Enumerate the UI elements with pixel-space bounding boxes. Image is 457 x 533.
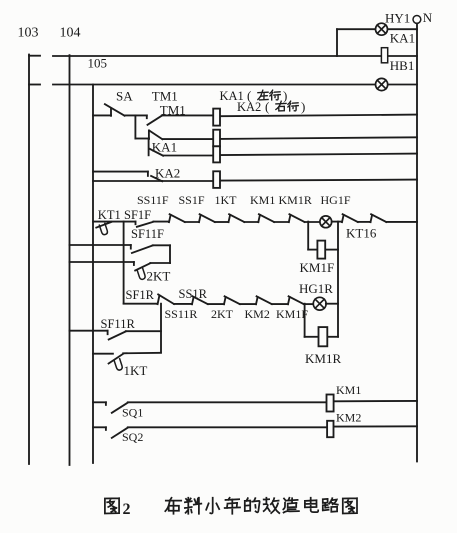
- svg-text:(: (: [265, 99, 269, 114]
- svg-text:SQ1: SQ1: [122, 405, 143, 419]
- svg-text:SS11F: SS11F: [137, 193, 169, 207]
- svg-text:): ): [283, 88, 287, 103]
- svg-text:TM1: TM1: [160, 103, 186, 118]
- svg-text:2: 2: [123, 501, 131, 518]
- svg-text:KM1: KM1: [336, 383, 361, 397]
- svg-text:HY1: HY1: [385, 10, 410, 25]
- svg-text:KA1: KA1: [152, 140, 177, 155]
- svg-text:HG1F: HG1F: [321, 193, 351, 207]
- svg-text:KM1R: KM1R: [279, 193, 312, 207]
- svg-text:): ): [301, 99, 305, 114]
- svg-text:N: N: [423, 10, 433, 25]
- svg-text:SF1F: SF1F: [124, 208, 151, 222]
- svg-text:SA: SA: [116, 89, 133, 104]
- svg-text:KM1F: KM1F: [300, 260, 335, 275]
- svg-text:2KT: 2KT: [211, 307, 234, 321]
- svg-text:SS11R: SS11R: [165, 307, 198, 321]
- svg-text:103: 103: [18, 26, 39, 41]
- svg-text:KM1: KM1: [250, 193, 275, 207]
- svg-text:KM1F: KM1F: [276, 307, 308, 321]
- svg-text:SF1R: SF1R: [126, 288, 155, 302]
- svg-text:2KT: 2KT: [147, 268, 171, 283]
- svg-text:104: 104: [60, 26, 81, 41]
- svg-text:KM2: KM2: [336, 411, 361, 425]
- svg-text:KM1R: KM1R: [305, 351, 341, 366]
- svg-text:SF11R: SF11R: [101, 317, 136, 331]
- svg-text:KA2: KA2: [237, 100, 261, 114]
- svg-text:SS1F: SS1F: [179, 193, 205, 207]
- svg-text:KM2: KM2: [245, 307, 270, 321]
- svg-text:SF11F: SF11F: [131, 227, 164, 241]
- svg-text:1KT: 1KT: [215, 193, 238, 207]
- svg-text:TM1: TM1: [152, 89, 178, 104]
- svg-text:SQ2: SQ2: [122, 430, 143, 444]
- svg-text:KT16: KT16: [346, 225, 377, 240]
- svg-text:HG1R: HG1R: [299, 281, 333, 296]
- svg-text:KA2: KA2: [155, 165, 180, 180]
- svg-text:SS1R: SS1R: [179, 287, 208, 301]
- svg-text:KA1: KA1: [390, 30, 415, 45]
- svg-text:HB1: HB1: [390, 58, 415, 73]
- svg-text:105: 105: [88, 56, 108, 71]
- svg-text:1KT: 1KT: [124, 363, 148, 378]
- svg-text:KT1: KT1: [98, 208, 121, 222]
